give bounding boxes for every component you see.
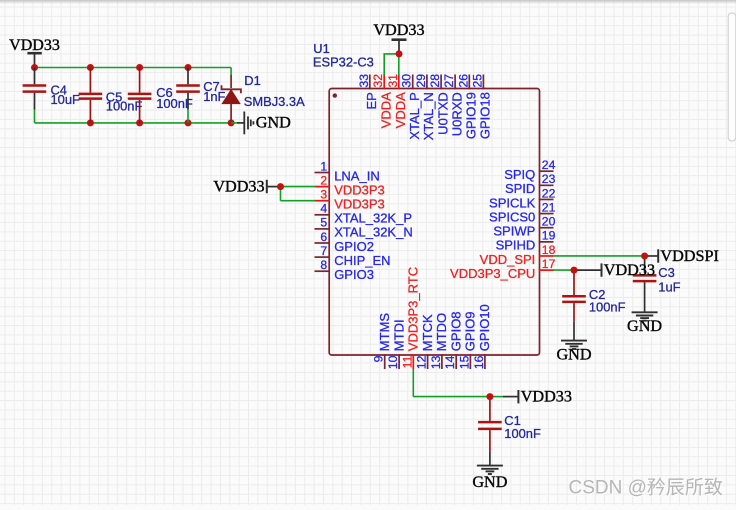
junction on bottom rail at C5 bbox=[87, 119, 94, 126]
pin 9 (MTMS) bbox=[372, 313, 392, 369]
pin 26 (GPIO19) bbox=[456, 74, 478, 139]
svg-text:8: 8 bbox=[320, 258, 327, 272]
svg-text:SPIHD: SPIHD bbox=[496, 238, 536, 253]
svg-text:EP: EP bbox=[364, 92, 379, 109]
svg-text:VDDA: VDDA bbox=[379, 92, 394, 128]
net label VDD33 (left, pins 2/3) bbox=[213, 177, 280, 195]
svg-text:1: 1 bbox=[320, 159, 327, 173]
svg-text:SPIWP: SPIWP bbox=[493, 224, 535, 239]
svg-text:28: 28 bbox=[428, 74, 442, 88]
svg-text:20: 20 bbox=[542, 215, 556, 229]
power flag VDD33 (above chip) bbox=[373, 21, 424, 54]
pin 2 (VDD3P3) bbox=[315, 173, 385, 197]
svg-text:GND: GND bbox=[256, 114, 291, 132]
pin 12 (MTCK) bbox=[415, 314, 435, 369]
svg-text:3: 3 bbox=[320, 188, 327, 202]
svg-text:5: 5 bbox=[320, 216, 327, 230]
wire to GND (cap bank) bbox=[231, 122, 237, 124]
pin 29 (XTAL_N) bbox=[414, 74, 436, 141]
svg-text:30: 30 bbox=[400, 74, 414, 88]
svg-text:10uF: 10uF bbox=[51, 92, 81, 107]
svg-text:VDD3P3_CPU: VDD3P3_CPU bbox=[450, 266, 535, 281]
svg-text:18: 18 bbox=[542, 243, 556, 257]
junction on top rail at C6 bbox=[136, 64, 143, 71]
junction on top rail at C4 bbox=[31, 64, 38, 71]
svg-text:D1: D1 bbox=[244, 73, 260, 88]
svg-text:XTAL_N: XTAL_N bbox=[421, 92, 436, 140]
net label VDD33 (right of pin 17) bbox=[602, 261, 656, 279]
svg-text:GPIO10: GPIO10 bbox=[477, 304, 492, 351]
capacitor C3 1uF bbox=[633, 256, 681, 312]
svg-text:GPIO19: GPIO19 bbox=[464, 92, 479, 139]
pin 30 (XTAL_P) bbox=[400, 74, 422, 140]
svg-text:VDD33: VDD33 bbox=[9, 37, 60, 54]
svg-text:XTAL_32K_N: XTAL_32K_N bbox=[334, 225, 413, 240]
wire node to VDD33 label bbox=[490, 396, 503, 398]
junction at VDDSPI node bbox=[641, 252, 648, 259]
watermark CSDN bbox=[569, 477, 724, 500]
svg-text:2: 2 bbox=[320, 173, 327, 187]
svg-text:GPIO3: GPIO3 bbox=[334, 267, 374, 282]
svg-text:GND: GND bbox=[472, 473, 507, 491]
pin 21 (SPICS0) bbox=[489, 200, 556, 224]
svg-text:15: 15 bbox=[457, 355, 471, 369]
junction on top rail at C5 bbox=[87, 64, 94, 71]
wire bottom rail GND bbox=[35, 122, 235, 124]
svg-text:33: 33 bbox=[357, 74, 371, 88]
svg-text:14: 14 bbox=[443, 355, 457, 369]
pin 32 (VDDA) bbox=[371, 74, 393, 129]
svg-text:1nF: 1nF bbox=[203, 89, 225, 104]
wire node to VDD33 label bbox=[574, 269, 601, 271]
ground GND (under C2) bbox=[556, 341, 591, 364]
net label VDDSPI bbox=[658, 247, 719, 265]
svg-text:4: 4 bbox=[320, 202, 327, 216]
svg-text:CSDN @矜辰所致: CSDN @矜辰所致 bbox=[569, 477, 723, 499]
svg-text:16: 16 bbox=[472, 355, 486, 369]
junction on bottom rail at C7 bbox=[185, 119, 192, 126]
svg-text:29: 29 bbox=[414, 74, 428, 88]
junction on bottom rail at D1 bbox=[228, 119, 235, 126]
svg-text:MTDI: MTDI bbox=[391, 319, 406, 351]
power flag VDD33 (top-left) bbox=[9, 37, 60, 68]
svg-text:17: 17 bbox=[542, 257, 556, 271]
svg-text:VDD3P3_RTC: VDD3P3_RTC bbox=[406, 267, 421, 351]
svg-text:GPIO18: GPIO18 bbox=[478, 92, 493, 139]
capacitor C4 10uF bbox=[23, 68, 80, 110]
ground GND (under C3) bbox=[627, 312, 662, 335]
capacitor C1 100nF bbox=[478, 397, 541, 465]
diode D1 SMBJ3.3A (TVS) bbox=[222, 68, 306, 123]
wire VDD33 to pin 32 bbox=[384, 54, 399, 75]
wire top rail VDD33 bbox=[35, 67, 232, 69]
svg-text:VDD3P3: VDD3P3 bbox=[334, 182, 385, 197]
net label VDD33 (bottom) bbox=[518, 387, 572, 405]
pin 23 (SPID) bbox=[505, 172, 556, 196]
svg-text:22: 22 bbox=[542, 186, 556, 200]
svg-text:26: 26 bbox=[456, 74, 470, 88]
pin 10 (MTDI) bbox=[386, 319, 406, 369]
pin 17 (VDD3P3_CPU) bbox=[450, 257, 556, 281]
svg-text:27: 27 bbox=[442, 74, 456, 88]
svg-text:MTDO: MTDO bbox=[434, 313, 449, 351]
svg-text:13: 13 bbox=[429, 355, 443, 369]
junction at VDD33 stem bbox=[396, 50, 403, 57]
pin 5 (XTAL_32K_N) bbox=[315, 216, 413, 240]
svg-text:7: 7 bbox=[320, 244, 327, 258]
svg-text:24: 24 bbox=[542, 158, 556, 172]
svg-text:32: 32 bbox=[371, 74, 385, 88]
svg-text:VDD33: VDD33 bbox=[213, 177, 264, 195]
wire pin 11 down bbox=[412, 369, 414, 397]
pin 14 (GPIO8) bbox=[443, 311, 463, 369]
svg-text:10: 10 bbox=[386, 355, 400, 369]
svg-text:VDD_SPI: VDD_SPI bbox=[480, 252, 536, 267]
svg-text:31: 31 bbox=[386, 74, 400, 88]
svg-text:LNA_IN: LNA_IN bbox=[334, 168, 380, 183]
svg-text:GND: GND bbox=[556, 345, 591, 363]
ground GND (under C1) bbox=[472, 466, 507, 491]
pin 18 (VDD_SPI) bbox=[480, 243, 556, 267]
junction on bottom rail at C6 bbox=[136, 119, 143, 126]
pin 19 (SPIHD) bbox=[496, 229, 556, 253]
pin 25 (GPIO18) bbox=[470, 74, 492, 139]
svg-text:C3: C3 bbox=[658, 265, 674, 280]
svg-text:SPID: SPID bbox=[505, 181, 535, 196]
capacitor C6 100nF bbox=[128, 68, 193, 123]
svg-text:SMBJ3.3A: SMBJ3.3A bbox=[244, 94, 305, 109]
capacitor C7 1nF bbox=[176, 68, 225, 123]
svg-text:100nF: 100nF bbox=[106, 99, 143, 114]
pin 11 (VDD3P3_RTC) bbox=[400, 267, 420, 369]
svg-text:25: 25 bbox=[470, 74, 484, 88]
wire to pin 3 bbox=[281, 200, 316, 202]
svg-text:XTAL_P: XTAL_P bbox=[407, 92, 422, 139]
pin 15 (GPIO9) bbox=[457, 311, 477, 369]
svg-text:1uF: 1uF bbox=[658, 280, 680, 295]
pin 28 (U0TXD) bbox=[428, 74, 450, 135]
svg-text:19: 19 bbox=[542, 229, 556, 243]
svg-text:VDD33: VDD33 bbox=[373, 21, 424, 39]
pin 3 (VDD3P3) bbox=[315, 188, 385, 212]
svg-text:100nF: 100nF bbox=[589, 299, 626, 314]
svg-text:SPICLK: SPICLK bbox=[489, 195, 536, 210]
pin 7 (CHIP_EN) bbox=[315, 244, 391, 268]
svg-text:21: 21 bbox=[542, 200, 556, 214]
pin 22 (SPICLK) bbox=[489, 186, 556, 210]
capacitor C5 100nF bbox=[79, 68, 143, 123]
pin 24 (SPIQ) bbox=[504, 158, 555, 182]
svg-text:U0RXD: U0RXD bbox=[449, 92, 464, 136]
svg-text:6: 6 bbox=[320, 230, 327, 244]
pin 27 (U0RXD) bbox=[442, 74, 464, 137]
svg-text:VDD33: VDD33 bbox=[604, 261, 655, 279]
pin 13 (MTDO) bbox=[429, 313, 449, 369]
svg-text:100nF: 100nF bbox=[504, 426, 541, 441]
svg-text:SPICS0: SPICS0 bbox=[489, 209, 535, 224]
ground GND (cap bank, sideways) bbox=[244, 112, 291, 135]
junction at pin 17 node bbox=[571, 267, 578, 274]
pin 8 (GPIO3) bbox=[315, 258, 374, 282]
svg-text:MTCK: MTCK bbox=[420, 314, 435, 351]
pin 33 (EP) bbox=[357, 74, 379, 110]
svg-text:GPIO2: GPIO2 bbox=[334, 239, 374, 254]
svg-text:VDDSPI: VDDSPI bbox=[660, 247, 718, 265]
svg-text:12: 12 bbox=[415, 355, 429, 369]
scrollbar thumb bbox=[728, 13, 736, 141]
svg-text:11: 11 bbox=[400, 355, 414, 368]
capacitor C2 100nF bbox=[562, 270, 625, 340]
pin 31 (VDDA) bbox=[386, 74, 408, 129]
svg-text:MTMS: MTMS bbox=[377, 313, 392, 352]
svg-text:XTAL_32K_P: XTAL_32K_P bbox=[334, 211, 412, 226]
svg-text:GND: GND bbox=[627, 317, 662, 335]
pin 16 (GPIO10) bbox=[472, 304, 492, 369]
pin 4 (XTAL_32K_P) bbox=[315, 202, 413, 226]
svg-text:GPIO9: GPIO9 bbox=[463, 311, 478, 351]
wire to C1 node bbox=[413, 396, 490, 398]
svg-text:ESP32-C3: ESP32-C3 bbox=[313, 54, 374, 69]
pin 6 (GPIO2) bbox=[315, 230, 374, 254]
op-amp/IC U1 ESP32-C3 body bbox=[329, 89, 539, 356]
svg-text:GPIO8: GPIO8 bbox=[448, 311, 463, 351]
svg-text:9: 9 bbox=[372, 355, 386, 362]
svg-text:23: 23 bbox=[542, 172, 556, 186]
wire pin 18 to VDDSPI node bbox=[553, 255, 645, 257]
wire node to VDDSPI label bbox=[645, 255, 658, 257]
wire down to pin 3 row bbox=[280, 187, 282, 201]
wire pin 17 to node bbox=[553, 269, 574, 271]
wire to pin 2 bbox=[281, 186, 316, 188]
junction on top rail at C7 bbox=[185, 64, 192, 71]
svg-text:U0TXD: U0TXD bbox=[435, 92, 450, 135]
svg-text:SPIQ: SPIQ bbox=[504, 167, 535, 182]
svg-text:VDD33: VDD33 bbox=[521, 387, 572, 405]
pin 20 (SPIWP) bbox=[493, 215, 555, 239]
svg-text:VDD3P3: VDD3P3 bbox=[334, 197, 385, 212]
svg-text:CHIP_EN: CHIP_EN bbox=[334, 253, 390, 268]
svg-text:VDDA: VDDA bbox=[393, 92, 408, 128]
junction at VDD33 label bbox=[277, 183, 284, 190]
wire VDD33 to pin 31 bbox=[398, 54, 400, 75]
pin 1 (LNA_IN) bbox=[315, 159, 380, 183]
wire C4 bottom segment bbox=[34, 110, 36, 123]
junction at C1 node bbox=[486, 393, 493, 400]
